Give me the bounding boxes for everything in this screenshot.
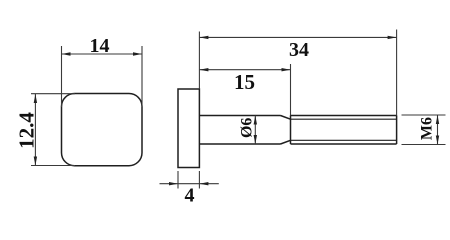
thread major diameter bottom line [291,143,397,145]
dim 34 extension right [396,30,398,116]
head front view rounded square [62,94,143,166]
thread runout taper top [281,116,291,120]
arrow 15 right [282,68,291,71]
dim 12.4 extension lines [31,93,75,95]
dim 15 extension right [290,64,292,116]
arrow 14 left [62,52,71,55]
svg-text:Ø6: Ø6 [239,118,256,138]
arrow phi6 bottom [254,135,257,144]
dim M6 extension lines [402,114,446,116]
arrow 14 right [133,52,142,55]
arrow 34 left [199,36,208,39]
shank bottom line [199,143,280,145]
svg-text:4: 4 [185,185,195,207]
thread start vertical line [290,116,292,145]
dim 15 line [199,69,290,71]
dim phi6 line [254,116,256,145]
arrow M6 top [436,115,439,124]
dim 14 line [62,53,143,55]
svg-text:34: 34 [289,39,309,61]
svg-text:M6: M6 [419,117,436,140]
dim 4 extension lines [177,171,179,189]
svg-text:15: 15 [234,70,255,94]
dim 14 extension lines [61,46,63,107]
arrow phi6 top [254,116,257,125]
arrow 4 left (outside pointing right) [169,182,178,185]
svg-text:14: 14 [90,35,110,57]
arrow 12.4 bottom [34,157,37,166]
shank top line [199,115,280,117]
arrow 15 left [199,68,208,71]
shaft end vertical line [396,116,398,145]
thread minor diameter bottom line [291,139,397,141]
head side view rectangle [178,89,199,168]
thread minor diameter top line [291,118,397,120]
arrow 4 right (outside pointing left) [199,182,208,185]
arrow 12.4 top [34,94,37,103]
dim 34 extension left (head face up) [198,32,200,90]
dim 34 line [199,36,396,38]
svg-text:12.4: 12.4 [14,112,38,149]
thread major diameter top line [291,115,397,117]
arrow 34 right [388,36,397,39]
dim M6 line [437,115,439,145]
thread runout taper bottom [281,140,291,144]
dim 12.4 line [34,94,36,166]
dim 4 line with tails [160,183,219,185]
arrow M6 bottom [436,136,439,145]
